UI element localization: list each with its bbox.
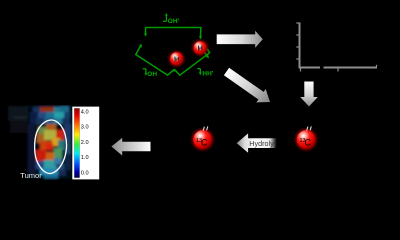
svg-text:3.0: 3.0: [81, 125, 89, 131]
svg-text:Hydrolysis: Hydrolysis: [249, 139, 283, 148]
svg-text:OH: OH: [147, 71, 157, 78]
svg-text:H: H: [174, 54, 179, 63]
svg-text:1.0: 1.0: [81, 155, 89, 161]
svg-text:H: H: [197, 44, 202, 53]
svg-text:C: C: [305, 137, 312, 147]
svg-text:OH′: OH′: [168, 18, 180, 25]
svg-text:2.0: 2.0: [81, 140, 89, 146]
svg-text:0.0: 0.0: [81, 170, 89, 176]
svg-text:4.0: 4.0: [81, 109, 89, 115]
svg-text:C: C: [201, 137, 208, 147]
svg-text:HH′: HH′: [202, 70, 213, 77]
svg-text:Tumor: Tumor: [20, 171, 42, 180]
